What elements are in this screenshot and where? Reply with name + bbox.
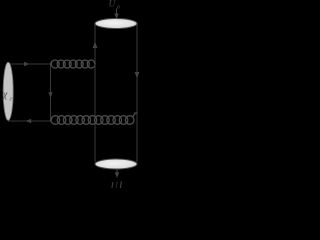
arrow down onto top face xyxy=(116,9,118,15)
wire bottom horizontal xyxy=(8,120,51,122)
cylinder top face xyxy=(95,19,137,29)
arrow down on right wall xyxy=(135,72,140,79)
coil L2 (bottom, 13 loops) xyxy=(51,113,138,124)
cylinder right wall xyxy=(136,24,138,162)
wire top horizontal xyxy=(8,63,51,65)
cylinder bottom face xyxy=(95,159,137,169)
arrow left on bottom wire xyxy=(26,119,32,123)
arrow right on top wire xyxy=(24,62,30,66)
svg-text:в: в xyxy=(117,4,120,11)
arrow down on vertical wire xyxy=(48,92,52,98)
coil L1 (top, 7 loops) xyxy=(51,60,96,68)
generator ellipse Z xyxy=(3,62,13,120)
svg-text:χ: χ xyxy=(2,90,8,101)
cylinder left wall xyxy=(94,24,96,162)
svg-text:U: U xyxy=(111,182,119,189)
arrow up on left wall xyxy=(93,42,98,49)
arrow down from bottom face xyxy=(116,169,118,174)
svg-text:U: U xyxy=(109,0,117,10)
wire vertical at x=50.5 xyxy=(50,64,52,121)
